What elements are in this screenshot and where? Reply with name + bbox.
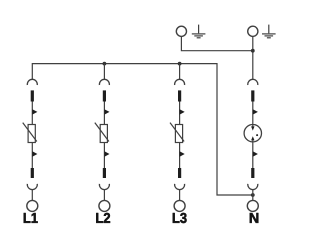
ground symbol 2 [262,25,276,38]
disconnect bar bottom L2 [103,168,106,178]
wire N to terminal [252,189,254,200]
wire L1 mid upper [31,102,33,125]
wire L2 riser [103,64,105,80]
disconnect bar top L3 [178,90,181,101]
junction dot PE net [251,49,255,53]
arrow L1 upper [32,109,37,114]
wire L3 mid upper [179,102,181,125]
connector top L1 [27,79,37,85]
terminal PE1 (top left circle) [176,26,186,36]
wire L2 mid upper [103,102,105,125]
disconnect bar top N [251,90,254,101]
wire L2 to terminal [103,189,105,200]
arrow N lower [253,151,258,156]
connector top N [248,79,258,85]
arrow L3 lower [180,151,185,156]
wire L1 to terminal [31,189,33,200]
terminal circle L1 [27,200,38,211]
spark gap N [244,125,261,142]
connector bottom N [248,184,258,190]
terminal circle L3 [174,200,185,211]
arrow L2 upper [104,109,109,114]
bus wire L1-L2-L3 top [32,64,253,195]
wire PE1 down and across to PE2 line [181,36,252,50]
wire N mid lower [252,142,254,168]
wire PE2 down to N branch [252,36,254,79]
arrow L2 lower [104,151,109,156]
junction dot bus-L3 [178,62,182,66]
junction dot at N bottom [251,193,255,197]
connector bottom L1 [27,184,37,190]
varistor L2 [100,125,107,143]
wire L3 to terminal [179,189,181,200]
wire L2 mid lower [103,143,105,169]
arrow N upper [253,109,258,114]
wire L1 mid lower [31,143,33,169]
terminal PE2 (top right circle) [248,26,258,36]
label N [250,213,258,223]
arrow L1 lower [32,151,37,156]
connector bottom L2 [99,184,109,190]
wire L3 mid lower [179,143,181,169]
label L3 [173,213,187,223]
terminal circle N [247,200,258,211]
ground symbol 1 [192,25,206,38]
disconnect bar bottom L1 [31,168,34,178]
varistor L3 [175,125,182,143]
terminal circle L2 [99,200,110,211]
label L2 [96,213,110,223]
varistor L1 [28,125,35,143]
connector bottom L3 [175,184,185,190]
connector top L3 [175,79,185,85]
arrow L3 upper [180,109,185,114]
wire L3 riser [179,64,181,80]
disconnect bar bottom N [251,168,254,178]
disconnect bar bottom L3 [178,168,181,178]
label L1 [24,213,38,223]
connector top L2 [99,79,109,85]
wire N mid upper [252,102,254,128]
disconnect bar top L1 [31,90,34,101]
disconnect bar top L2 [103,90,106,101]
junction dot bus-L2 [103,62,107,66]
